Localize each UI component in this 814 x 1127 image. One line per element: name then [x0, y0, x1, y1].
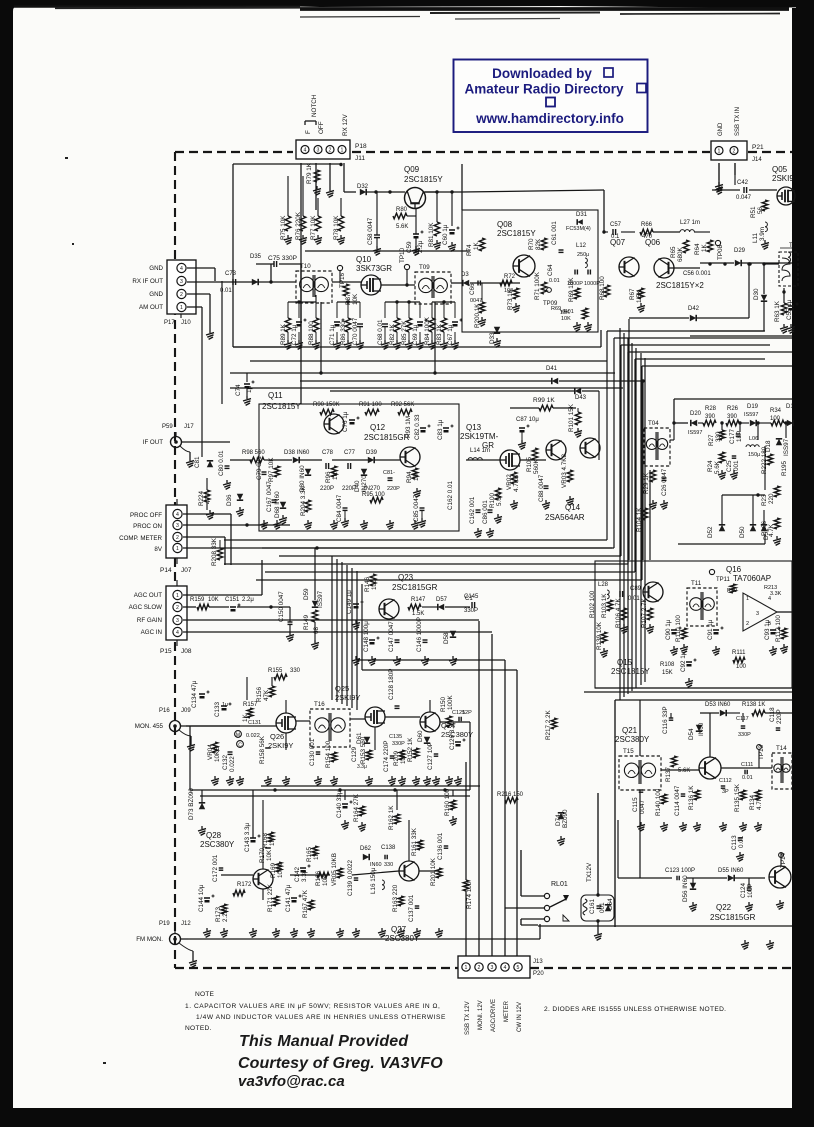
svg-text:D20: D20 [690, 411, 702, 417]
svg-text:C81-: C81- [383, 470, 395, 476]
svg-text:AM OUT: AM OUT [139, 304, 163, 311]
svg-text:Courtesy of Greg. VA3VFO: Courtesy of Greg. VA3VFO [238, 1055, 443, 1072]
svg-text:D52: D52 [707, 526, 714, 538]
svg-text:IN60: IN60 [370, 862, 382, 868]
svg-text:R94: R94 [406, 471, 413, 483]
svg-text:3: 3 [317, 148, 320, 154]
svg-text:C77: C77 [344, 450, 356, 456]
svg-text:Downloaded by: Downloaded by [492, 66, 592, 81]
svg-text:D53 IN60: D53 IN60 [705, 702, 731, 708]
svg-text:C117: C117 [736, 716, 749, 722]
svg-text:R103 1K: R103 1K [601, 593, 608, 618]
svg-text:Q12: Q12 [370, 423, 386, 432]
svg-text:250μ: 250μ [577, 252, 589, 258]
svg-text:www.hamdirectory.info: www.hamdirectory.info [475, 111, 624, 126]
svg-text:C130 001: C130 001 [309, 738, 316, 766]
svg-text:R74: R74 [466, 244, 473, 256]
svg-text:D31: D31 [576, 212, 588, 218]
svg-text:J12: J12 [181, 921, 191, 927]
svg-text:C61 001: C61 001 [551, 221, 558, 245]
svg-text:1: 1 [176, 593, 179, 599]
svg-text:TA7060AP: TA7060AP [733, 574, 771, 583]
svg-text:1μ: 1μ [222, 702, 228, 708]
svg-text:0.047: 0.047 [736, 195, 752, 201]
svg-text:R64: R64 [694, 243, 701, 255]
svg-text:10K: 10K [352, 293, 359, 305]
svg-text:C67 1μ: C67 1μ [447, 324, 454, 345]
svg-text:C126 3.3μ: C126 3.3μ [449, 720, 456, 750]
svg-text:2SC380Y: 2SC380Y [200, 840, 235, 849]
svg-text:2.2μ: 2.2μ [242, 597, 254, 603]
svg-text:1: 1 [746, 596, 749, 602]
svg-text:10K: 10K [266, 849, 273, 861]
svg-text:T16: T16 [314, 701, 325, 708]
svg-text:C69 1μ: C69 1μ [412, 324, 419, 345]
svg-text:C58 0047: C58 0047 [367, 217, 374, 245]
svg-text:330: 330 [384, 862, 393, 868]
svg-text:Q28: Q28 [206, 831, 222, 840]
svg-text:TP11: TP11 [716, 577, 731, 583]
svg-text:2SKI9Y: 2SKI9Y [268, 741, 293, 750]
svg-text:P15: P15 [160, 648, 172, 655]
svg-text:0.022: 0.022 [246, 733, 260, 739]
svg-text:P19: P19 [159, 921, 170, 927]
svg-text:C66: C66 [469, 283, 476, 295]
svg-text:R140 100: R140 100 [655, 788, 662, 816]
svg-text:C131: C131 [248, 720, 261, 726]
svg-text:VR01: VR01 [560, 309, 574, 315]
svg-text:R23: R23 [761, 494, 768, 506]
svg-text:0047: 0047 [470, 298, 482, 304]
svg-text:D38 IN60: D38 IN60 [284, 450, 310, 456]
svg-text:Q22: Q22 [716, 903, 732, 912]
svg-text:C147 0047: C147 0047 [388, 621, 395, 652]
svg-text:C133: C133 [214, 701, 221, 717]
svg-text:3: 3 [756, 611, 759, 617]
svg-text:C82 0.33: C82 0.33 [414, 414, 421, 440]
svg-text:P17: P17 [164, 320, 175, 326]
svg-text:12P: 12P [462, 710, 472, 716]
svg-text:D59: D59 [303, 588, 310, 600]
svg-text:ISS97: ISS97 [783, 438, 790, 456]
svg-text:P21: P21 [752, 144, 764, 151]
svg-text:330: 330 [290, 668, 301, 674]
svg-text:D57: D57 [436, 597, 448, 603]
svg-text:R157: R157 [243, 702, 258, 708]
svg-text:IF OUT: IF OUT [143, 439, 163, 446]
svg-text:Q26: Q26 [270, 732, 284, 741]
svg-text:T: T [789, 243, 793, 249]
svg-text:R98 560: R98 560 [242, 450, 265, 456]
svg-text:2: 2 [329, 148, 332, 154]
svg-text:R156: R156 [256, 686, 263, 702]
svg-text:AGC IN: AGC IN [141, 629, 162, 636]
svg-text:D41: D41 [546, 366, 558, 372]
svg-text:TP08: TP08 [717, 244, 724, 260]
svg-text:1.5K: 1.5K [412, 611, 424, 617]
svg-text:2SC380Y: 2SC380Y [441, 730, 473, 739]
svg-text:C161: C161 [589, 898, 596, 914]
svg-text:Q07: Q07 [610, 238, 626, 247]
svg-text:Q05: Q05 [772, 165, 788, 174]
svg-text:D60: D60 [417, 730, 424, 742]
svg-text:R77 10K: R77 10K [310, 215, 317, 240]
svg-text:Q23: Q23 [398, 573, 414, 582]
svg-text:D19: D19 [747, 404, 759, 410]
svg-text:4: 4 [304, 148, 307, 154]
svg-text:R72: R72 [504, 274, 516, 280]
svg-text:C148 100μ: C148 100μ [363, 621, 370, 652]
svg-text:C143 3.3μ: C143 3.3μ [244, 822, 251, 852]
svg-text:4: 4 [176, 630, 179, 636]
svg-text:100K: 100K [447, 694, 454, 710]
svg-text:C142: C142 [294, 866, 301, 882]
svg-text:FM MON.: FM MON. [136, 936, 163, 943]
svg-text:3: 3 [176, 618, 179, 624]
svg-text:C144 10μ: C144 10μ [198, 884, 205, 912]
svg-text:2: 2 [180, 292, 183, 298]
svg-text:1: 1 [180, 305, 183, 311]
svg-text:P20: P20 [533, 971, 544, 977]
svg-text:C140 33μ: C140 33μ [336, 790, 343, 818]
svg-text:Q16: Q16 [726, 565, 742, 574]
svg-text:C64: C64 [547, 264, 554, 276]
svg-text:R164 27K: R164 27K [353, 793, 360, 822]
svg-text:F: F [305, 130, 312, 134]
svg-text:D73 BZ090: D73 BZ090 [188, 788, 195, 820]
svg-text:R158 56K: R158 56K [259, 735, 266, 764]
svg-text:TX12V: TX12V [586, 862, 593, 882]
svg-text:VR02: VR02 [506, 474, 513, 490]
svg-text:D1: D1 [786, 404, 794, 410]
svg-text:P14: P14 [160, 567, 172, 574]
svg-text:VR05 10KB: VR05 10KB [331, 853, 338, 886]
svg-text:2SC1815Y×2: 2SC1815Y×2 [656, 281, 704, 290]
svg-text:L14 1m: L14 1m [470, 448, 490, 454]
svg-text:IS597: IS597 [744, 412, 758, 418]
svg-text:C139 0.0022: C139 0.0022 [347, 859, 354, 896]
svg-text:C118: C118 [769, 707, 776, 722]
svg-text:D42: D42 [688, 306, 700, 312]
svg-text:AGC SLOW: AGC SLOW [129, 604, 163, 611]
svg-text:L27 1m: L27 1m [680, 220, 700, 226]
svg-text:100: 100 [736, 664, 747, 670]
svg-text:ISS97: ISS97 [317, 590, 324, 608]
svg-text:R138 1K: R138 1K [742, 702, 765, 708]
svg-text:Q11: Q11 [268, 391, 283, 400]
svg-text:R136 1K: R136 1K [688, 785, 695, 810]
svg-text:D55 IN60: D55 IN60 [718, 868, 744, 874]
svg-text:NOTED.: NOTED. [185, 1025, 212, 1032]
svg-text:2SC380Y: 2SC380Y [615, 735, 650, 744]
svg-text:D56 IN60: D56 IN60 [682, 875, 689, 902]
svg-text:COMP. METER: COMP. METER [119, 535, 162, 542]
svg-text:C134 47μ: C134 47μ [191, 680, 198, 708]
svg-text:0.022: 0.022 [229, 756, 236, 772]
svg-text:C25: C25 [726, 460, 733, 472]
svg-text:R66: R66 [641, 222, 653, 228]
svg-text:D40: D40 [354, 480, 361, 492]
svg-text:C60 1μ: C60 1μ [442, 224, 449, 245]
svg-text:390: 390 [727, 414, 738, 420]
svg-text:D62: D62 [360, 846, 372, 852]
svg-text:R174 100: R174 100 [466, 881, 473, 909]
svg-text:R161 33K: R161 33K [411, 827, 418, 856]
svg-text:2. DIODES ARE IS1555 UNLESS OT: 2. DIODES ARE IS1555 UNLESS OTHERWISE NO… [544, 1006, 726, 1013]
svg-text:J13: J13 [533, 959, 543, 965]
svg-text:RF GAIN: RF GAIN [137, 617, 162, 624]
svg-text:C137 001: C137 001 [408, 894, 415, 922]
svg-text:C115: C115 [632, 797, 639, 812]
svg-text:R51: R51 [750, 206, 757, 218]
svg-text:4: 4 [504, 965, 507, 971]
svg-text:C71 1μ: C71 1μ [329, 324, 336, 345]
svg-text:5.6K: 5.6K [678, 768, 690, 774]
svg-text:OFF: OFF [318, 121, 325, 134]
svg-text:R146: R146 [364, 576, 371, 592]
svg-text:D50: D50 [739, 526, 746, 538]
svg-text:R86 330: R86 330 [340, 321, 347, 345]
svg-text:C116 33P: C116 33P [662, 706, 669, 734]
svg-text:T11: T11 [691, 580, 702, 587]
svg-text:R162 1K: R162 1K [388, 805, 395, 830]
svg-text:FC53M(4): FC53M(4) [566, 226, 591, 232]
svg-text:2: 2 [478, 965, 481, 971]
svg-text:220: 220 [768, 493, 775, 504]
svg-text:2SC1815Y: 2SC1815Y [262, 402, 301, 411]
svg-text:R155: R155 [268, 668, 283, 674]
svg-text:2: 2 [746, 621, 749, 627]
svg-text:R71 100K: R71 100K [534, 271, 541, 300]
svg-text:R150: R150 [440, 696, 447, 712]
svg-text:0.01: 0.01 [738, 835, 745, 848]
svg-text:C132: C132 [222, 754, 229, 770]
svg-text:C68 0.01: C68 0.01 [377, 319, 384, 345]
svg-text:Q08: Q08 [497, 220, 513, 229]
svg-text:R102 100: R102 100 [589, 590, 596, 618]
svg-text:4: 4 [180, 266, 183, 272]
svg-text:R90 150K: R90 150K [313, 402, 340, 408]
svg-text:5: 5 [517, 965, 520, 971]
svg-text:C83 1μ: C83 1μ [437, 419, 444, 440]
svg-text:Q06: Q06 [645, 238, 661, 247]
svg-text:C146 1000P: C146 1000P [416, 617, 423, 652]
svg-text:D30: D30 [753, 288, 760, 300]
svg-text:R78 10K: R78 10K [333, 215, 340, 240]
svg-text:Q25: Q25 [335, 684, 349, 693]
svg-text:R172: R172 [237, 882, 252, 888]
svg-text:2SC1815Y: 2SC1815Y [497, 229, 536, 238]
svg-text:2SC1815GR: 2SC1815GR [710, 913, 756, 922]
svg-text:D68 IN60: D68 IN60 [274, 491, 281, 518]
svg-text:001: 001 [599, 902, 606, 913]
svg-text:J14: J14 [752, 157, 762, 163]
svg-text:15K: 15K [662, 670, 673, 676]
svg-text:NOTCH: NOTCH [311, 94, 318, 117]
svg-text:AGC/DRIVE: AGC/DRIVE [491, 999, 497, 1032]
svg-text:C135: C135 [389, 734, 402, 740]
svg-text:P18: P18 [355, 143, 367, 150]
svg-text:2SC1815GR: 2SC1815GR [392, 583, 438, 592]
svg-text:3.3μ: 3.3μ [357, 764, 367, 770]
svg-text:R135 15K: R135 15K [734, 783, 741, 812]
svg-text:R159: R159 [190, 597, 205, 603]
svg-text:R29 1K: R29 1K [643, 472, 650, 494]
svg-text:0.01: 0.01 [742, 775, 753, 781]
svg-text:560K: 560K [533, 458, 540, 474]
svg-text:1: 1 [341, 148, 344, 154]
svg-text:C129: C129 [351, 746, 358, 762]
svg-text:330P: 330P [464, 608, 478, 614]
svg-text:RX 12V: RX 12V [342, 113, 349, 136]
svg-text:NOTE: NOTE [195, 991, 215, 998]
svg-text:C113: C113 [731, 835, 738, 850]
svg-text:C91 1μ: C91 1μ [707, 619, 714, 640]
svg-text:METER: METER [504, 1000, 510, 1022]
svg-text:C85 0047: C85 0047 [413, 494, 420, 522]
svg-text:T04: T04 [648, 420, 659, 427]
svg-text:C73: C73 [225, 271, 237, 277]
svg-text:J17: J17 [184, 424, 194, 430]
svg-text:R173: R173 [215, 906, 222, 922]
svg-text:L28: L28 [598, 582, 609, 588]
svg-text:2: 2 [733, 149, 736, 155]
svg-text:R149: R149 [303, 614, 310, 630]
svg-text:C92 1μ: C92 1μ [680, 651, 687, 672]
svg-text:330P: 330P [738, 732, 751, 738]
svg-text:IN60: IN60 [698, 722, 705, 736]
svg-text:C79 001: C79 001 [256, 456, 263, 480]
svg-text:This Manual Provided: This Manual Provided [239, 1033, 409, 1050]
svg-text:0.01: 0.01 [628, 596, 640, 602]
svg-text:L16 150μ: L16 150μ [370, 867, 377, 894]
svg-text:001: 001 [733, 460, 740, 471]
svg-text:C26 0047: C26 0047 [661, 468, 668, 496]
svg-text:2SK19TM-: 2SK19TM- [460, 432, 499, 441]
svg-text:C112: C112 [719, 778, 732, 784]
svg-text:R28: R28 [705, 406, 717, 412]
svg-text:R63 1K: R63 1K [774, 300, 781, 322]
svg-text:R75 10K: R75 10K [280, 215, 287, 240]
svg-text:GND: GND [718, 122, 724, 136]
svg-text:R137: R137 [665, 766, 672, 782]
svg-text:220P: 220P [776, 709, 783, 724]
svg-text:2SKI9: 2SKI9 [772, 174, 794, 183]
svg-text:R195: R195 [781, 460, 788, 476]
svg-text:C87 10μ: C87 10μ [516, 417, 539, 423]
svg-text:C93 1μ: C93 1μ [764, 619, 771, 640]
svg-text:R92 56K: R92 56K [391, 402, 414, 408]
svg-text:D35: D35 [250, 254, 262, 260]
svg-text:GND: GND [149, 291, 163, 298]
svg-text:J08: J08 [181, 648, 192, 655]
svg-text:P16: P16 [159, 708, 170, 714]
svg-text:2SKI9Y: 2SKI9Y [335, 693, 360, 702]
svg-text:1: 1 [465, 965, 468, 971]
svg-text:R27: R27 [708, 434, 715, 446]
svg-text:0.01: 0.01 [549, 278, 560, 284]
svg-text:1/4W AND INDUCTOR VALUES ARE I: 1/4W AND INDUCTOR VALUES ARE IN HENRIES … [196, 1014, 446, 1021]
svg-text:1: 1 [718, 149, 721, 155]
svg-text:AGC OUT: AGC OUT [134, 592, 162, 599]
svg-text:C167 0047: C167 0047 [266, 481, 273, 512]
svg-text:R67: R67 [629, 288, 636, 300]
svg-text:8V: 8V [154, 546, 162, 553]
svg-text:3: 3 [491, 965, 494, 971]
svg-text:82K: 82K [535, 238, 542, 250]
svg-text:R108: R108 [660, 662, 675, 668]
svg-text:MON. 455: MON. 455 [135, 723, 164, 730]
svg-text:3SK73GR: 3SK73GR [356, 264, 392, 273]
svg-text:C72 1μ: C72 1μ [291, 324, 298, 345]
svg-text:C90 1μ: C90 1μ [665, 619, 672, 640]
svg-text:C74: C74 [235, 384, 242, 396]
svg-text:Q15: Q15 [617, 658, 633, 667]
svg-text:C59: C59 [406, 241, 413, 253]
svg-text:GND: GND [149, 265, 163, 272]
svg-text:R88 100: R88 100 [308, 321, 315, 345]
svg-text:4: 4 [176, 512, 179, 518]
svg-text:T15: T15 [623, 748, 634, 755]
svg-text:C75 330P: C75 330P [268, 255, 297, 262]
svg-text:C141 47μ: C141 47μ [285, 884, 292, 912]
svg-text:68: 68 [313, 626, 320, 634]
svg-text:220P: 220P [320, 486, 334, 492]
svg-text:Q09: Q09 [404, 165, 420, 174]
svg-text:R34: R34 [770, 408, 782, 414]
svg-text:3.9m: 3.9m [759, 227, 766, 241]
svg-text:Q13: Q13 [466, 423, 482, 432]
svg-text:TP10: TP10 [399, 247, 406, 263]
svg-text:SSB TX IN: SSB TX IN [735, 107, 741, 136]
svg-text:3P: 3P [722, 789, 729, 795]
svg-text:R91 100: R91 100 [359, 402, 382, 408]
svg-text:R216 150: R216 150 [497, 792, 524, 798]
svg-text:C: C [238, 743, 242, 749]
svg-text:Q21: Q21 [622, 726, 638, 735]
svg-text:L06: L06 [749, 436, 758, 442]
svg-text:D58: D58 [443, 632, 450, 644]
svg-text:3.3K: 3.3K [770, 591, 782, 597]
svg-text:10K: 10K [208, 597, 219, 603]
svg-text:J07: J07 [181, 567, 192, 574]
svg-text:C56 0.001: C56 0.001 [683, 271, 711, 277]
svg-text:Q10: Q10 [356, 255, 372, 264]
svg-text:C138: C138 [381, 845, 396, 851]
svg-text:R65: R65 [670, 246, 677, 258]
svg-text:C70 0047: C70 0047 [352, 317, 359, 345]
svg-text:T10: T10 [300, 263, 311, 270]
svg-text:10K: 10K [561, 316, 571, 322]
svg-text:R152 1K: R152 1K [407, 737, 414, 762]
svg-text:J09: J09 [181, 708, 191, 714]
svg-text:C150 0047: C150 0047 [278, 591, 285, 622]
svg-text:2SC1815GR: 2SC1815GR [364, 433, 410, 442]
svg-text:2SC1815Y: 2SC1815Y [404, 175, 443, 184]
svg-text:R171 22K: R171 22K [267, 883, 274, 912]
svg-text:330P: 330P [392, 741, 405, 747]
svg-text:220P: 220P [387, 486, 400, 492]
svg-text:47K: 47K [263, 689, 270, 701]
svg-text:1000P: 1000P [584, 281, 600, 287]
svg-text:RL01: RL01 [551, 881, 568, 888]
svg-text:C84 0047: C84 0047 [336, 494, 343, 522]
svg-text:C145: C145 [464, 594, 479, 600]
svg-text:va3vfo@rac.ca: va3vfo@rac.ca [238, 1073, 345, 1090]
svg-text:150μ: 150μ [748, 452, 760, 458]
svg-text:R167 47K: R167 47K [302, 889, 309, 918]
svg-text:Q14: Q14 [565, 503, 581, 512]
